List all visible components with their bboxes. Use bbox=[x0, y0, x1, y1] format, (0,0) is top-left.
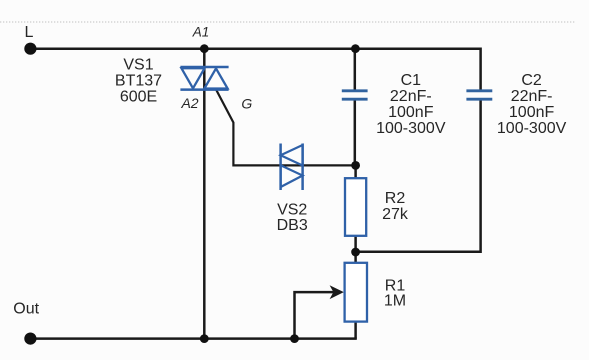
svg-text:VS2: VS2 bbox=[277, 202, 307, 219]
svg-text:Out: Out bbox=[13, 301, 39, 318]
capacitor C2 bottom plate bbox=[466, 98, 492, 101]
junction dot A2 / bottom rail bbox=[200, 334, 209, 343]
wire: C2 bottom lead down and across to R2 bottom node bbox=[356, 100, 481, 252]
svg-text:C2: C2 bbox=[521, 72, 542, 89]
svg-text:A1: A1 bbox=[192, 24, 210, 39]
triac VS1 bottom bar bbox=[180, 88, 228, 91]
capacitor C1 top plate bbox=[342, 89, 368, 92]
wire: top rail L to C2 corner, down to C2 top plate bbox=[30, 49, 481, 90]
wire: C1 top lead bbox=[354, 49, 357, 90]
wire: C1 bottom lead to diac node bbox=[354, 100, 357, 166]
wire: diac to R2/C1 node bbox=[281, 164, 356, 166]
resistor R1 body (potentiometer) bbox=[345, 263, 367, 322]
triac VS1 top bar bbox=[180, 66, 228, 69]
diac VS2 lower triangle (points right) bbox=[281, 165, 303, 187]
wire: bottom rail Out bbox=[30, 337, 357, 340]
svg-text:100nF: 100nF bbox=[509, 104, 555, 121]
wire: R1 wiper branch from bottom rail bbox=[295, 292, 334, 339]
wire: gate of triac to diac bbox=[216, 90, 280, 165]
svg-text:600E: 600E bbox=[120, 88, 157, 105]
svg-text:R2: R2 bbox=[385, 190, 406, 207]
triac VS1 right triangle bbox=[204, 68, 227, 88]
junction dot diac / C1 / R2 bbox=[351, 161, 360, 170]
terminal L bbox=[24, 43, 36, 55]
diac VS2 right bar bbox=[301, 144, 304, 191]
wiper arrowhead into R1 bbox=[330, 285, 344, 299]
wire: R2 bottom to R1 top bbox=[354, 236, 357, 264]
diac VS2 left bar bbox=[279, 144, 282, 191]
svg-text:G: G bbox=[241, 96, 252, 112]
svg-text:DB3: DB3 bbox=[277, 217, 308, 234]
wire: R1 bottom lead bbox=[354, 321, 357, 338]
svg-text:100-300V: 100-300V bbox=[376, 120, 446, 137]
svg-text:100nF: 100nF bbox=[388, 104, 434, 121]
triac VS1 left triangle bbox=[181, 68, 204, 88]
svg-text:VS1: VS1 bbox=[123, 56, 153, 73]
junction dot wiper / bottom rail bbox=[290, 334, 299, 343]
resistor R2 body bbox=[345, 178, 366, 236]
svg-text:C1: C1 bbox=[401, 72, 422, 89]
svg-text:27k: 27k bbox=[382, 206, 409, 223]
node A1 junction dot bbox=[200, 44, 209, 53]
svg-text:BT137: BT137 bbox=[115, 72, 162, 89]
svg-text:22nF-: 22nF- bbox=[511, 88, 553, 105]
capacitor C1 bottom plate bbox=[342, 98, 368, 101]
svg-text:A2: A2 bbox=[180, 95, 198, 111]
svg-text:L: L bbox=[25, 24, 34, 41]
faint dotted separator line (top) bbox=[0, 21, 575, 23]
capacitor C2 top plate bbox=[466, 89, 492, 92]
svg-text:1M: 1M bbox=[384, 292, 406, 309]
junction dot C1 top / rail bbox=[351, 44, 360, 53]
wire: node to R2 top bbox=[354, 165, 357, 178]
junction dot R2 / R1 / C2 return bbox=[351, 248, 360, 257]
wire: triac vertical A1-A2 branch down to bottom rail bbox=[203, 49, 206, 339]
terminal Out bbox=[24, 333, 36, 345]
diac VS2 upper triangle (points left) bbox=[281, 145, 303, 166]
svg-text:100-300V: 100-300V bbox=[497, 120, 567, 137]
svg-text:22nF-: 22nF- bbox=[390, 88, 432, 105]
